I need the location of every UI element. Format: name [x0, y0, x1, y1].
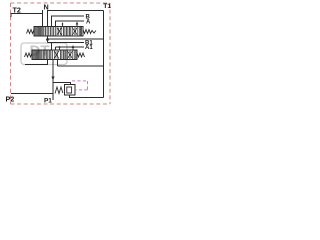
wire valve2 left stub [25, 60, 48, 65]
wire relief inlet elbow [53, 83, 71, 85]
wire relief feed [57, 60, 59, 67]
wire A1 stub [56, 46, 85, 48]
wire P1 trunk [52, 60, 54, 101]
arrowhead above V1 [76, 22, 79, 25]
stub above V2 center [59, 47, 61, 51]
spring V2 left [25, 53, 33, 57]
arrow above V1 [76, 23, 78, 27]
spring RV1 [55, 87, 63, 94]
wire A1 drop to valve2 [55, 47, 57, 50]
wire P2 line [11, 93, 53, 95]
spring V2 right [77, 53, 85, 57]
wire relief outlet [70, 95, 104, 98]
wire valve1 bottom to mid tank line [47, 36, 49, 43]
tick above V2 stub [59, 46, 61, 48]
arrow above V2 [72, 46, 74, 50]
arrowhead above V2 [72, 45, 75, 48]
svg-text:P1: P1 [44, 98, 52, 105]
svg-text:A: A [86, 20, 91, 26]
spring V1 left [27, 30, 35, 34]
watermark logo box [21, 43, 67, 65]
arrowhead into relief valve [51, 77, 54, 81]
relief valve RV1 [55, 85, 75, 96]
dashed enclosure border [11, 3, 111, 104]
junction dot [46, 38, 49, 41]
wire tank trunk T1 right side [103, 11, 105, 98]
pilot line (dashed magenta) [72, 81, 88, 90]
spring V1 right [83, 30, 96, 34]
wire B stub [52, 16, 85, 27]
wire top tank line to T1 [48, 11, 104, 27]
wire T2 line [11, 14, 43, 18]
svg-text:T1: T1 [103, 3, 111, 10]
valve V2 (lower directional valve) [25, 46, 85, 60]
wire N trunk down to valve 1 [42, 10, 44, 27]
wire A stub [56, 21, 85, 27]
wire lower tank line [58, 65, 104, 67]
svg-text:A1: A1 [85, 45, 93, 51]
svg-text:P2: P2 [6, 94, 15, 103]
valve V1 (top directional valve) [27, 23, 97, 37]
wire B1 stub [48, 42, 85, 44]
wire B1 drop to valve2 [51, 43, 53, 51]
wire mid tank line [48, 38, 104, 40]
tick above V1 stub [62, 22, 64, 24]
svg-text:N: N [44, 2, 49, 11]
svg-text:T2: T2 [13, 5, 21, 14]
stub above V1 center [62, 23, 64, 27]
